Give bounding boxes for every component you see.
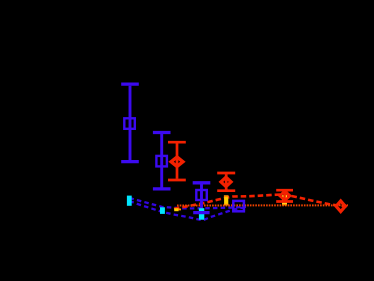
- yellow marker Y2: [224, 196, 228, 205]
- cyan marker C2: [199, 208, 204, 220]
- blue dashed model curve B (lower, dipping): [130, 201, 247, 220]
- orange bottom edge Y2: [224, 204, 229, 206]
- blue dashed model curve A (upper): [130, 198, 247, 208]
- orange top edge Y2: [224, 195, 229, 197]
- blue error bar point B3: [193, 183, 211, 213]
- red error bar point R2: [217, 173, 235, 191]
- orange dotted model curve: [177, 204, 348, 206]
- yellow marker Y3: [282, 195, 287, 205]
- blue error bar point B1: [121, 84, 139, 162]
- blue open square point B4: [233, 201, 244, 211]
- cyan marker C0: [127, 196, 132, 206]
- cyan marker C1: [160, 207, 165, 214]
- orange tail Y1: [178, 209, 181, 211]
- blue error bar point B2: [153, 133, 171, 189]
- red error bar point R3: [276, 190, 293, 201]
- red open diamond point R4: [336, 201, 345, 212]
- blue error bar stem B3 (under cyan): [200, 184, 203, 211]
- orange bottom edge Y3: [282, 204, 287, 205]
- red error bar point R1: [168, 142, 186, 180]
- yellow marker Y1: [174, 208, 178, 211]
- red dashed model curve: [174, 194, 349, 209]
